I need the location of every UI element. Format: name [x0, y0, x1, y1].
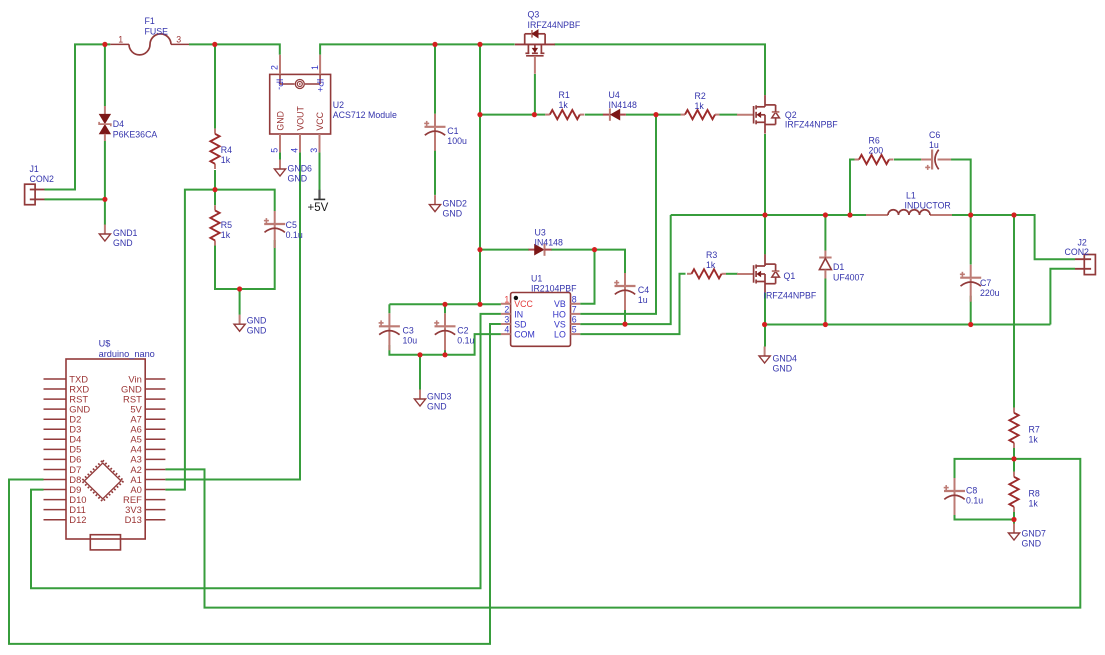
svg-text:GND: GND	[247, 326, 267, 336]
junction output rail / D1	[823, 212, 828, 217]
wire U4 to HO node	[626, 114, 656, 116]
wire GND node down to GND1	[104, 199, 106, 225]
ground GND4	[759, 347, 797, 374]
wire rail to C7 top	[970, 215, 972, 265]
wire rail to GND3	[419, 355, 421, 390]
svg-text:IRFZ44NPBF: IRFZ44NPBF	[764, 291, 817, 301]
junction top rail / D4	[102, 42, 107, 47]
diode U3	[529, 228, 563, 256]
svg-text:D4: D4	[113, 119, 124, 129]
wire Q3 gate down to R1 row	[534, 74, 536, 115]
svg-text:GND: GND	[113, 238, 133, 248]
wire VCC rail down to C3 top	[388, 304, 390, 313]
ground GND6	[274, 160, 312, 184]
wire R2 to Q2 gate	[720, 114, 738, 116]
wire VB node to C4 top	[595, 250, 626, 274]
transistor Q2	[737, 95, 838, 134]
connector J2	[1065, 238, 1096, 275]
ground GND3	[414, 390, 451, 412]
capacitor C1	[424, 114, 467, 151]
svg-text:1: 1	[504, 294, 509, 304]
svg-text:GND: GND	[247, 316, 267, 326]
wire feedback node to C8 top	[955, 459, 1015, 478]
junction gnd rail / Q1 source / GND4	[762, 322, 767, 327]
svg-text:R7: R7	[1029, 425, 1040, 435]
wire C6 to rail	[951, 160, 971, 216]
wire main vertical (rail to U1 VCC)	[479, 44, 481, 304]
svg-text:1k: 1k	[1029, 499, 1039, 509]
svg-text:5: 5	[270, 148, 280, 153]
svg-text:U1: U1	[531, 274, 542, 284]
svg-text:1k: 1k	[1029, 435, 1039, 445]
svg-text:GND: GND	[276, 111, 286, 131]
svg-text:6: 6	[572, 315, 577, 325]
svg-text:200: 200	[869, 146, 884, 156]
svg-text:VS: VS	[554, 319, 566, 329]
junction gnd rail / C2	[442, 352, 447, 357]
wire top rail to D4 top	[104, 44, 106, 106]
svg-text:D1: D1	[833, 262, 844, 272]
svg-text:3: 3	[504, 315, 509, 325]
svg-text:GND: GND	[773, 364, 793, 374]
junction gnd rail / GND3	[417, 352, 422, 357]
ground (R5/C5)	[234, 315, 266, 336]
junction gnd rail / C7	[968, 322, 973, 327]
wire to U3 anode	[480, 249, 529, 251]
svg-text:GND7: GND7	[1022, 529, 1047, 539]
wire top rail (Q3 source to Q2 drain)	[554, 44, 765, 95]
svg-text:4: 4	[290, 148, 300, 153]
wire D1 anode to return rail	[824, 279, 826, 325]
svg-text:R1: R1	[559, 90, 570, 100]
wire U2 VOUT down to arduino A1	[165, 152, 300, 479]
wire VCC rail to U1 pin1	[389, 303, 501, 305]
diode D1	[819, 251, 864, 283]
wire top rail (U2 IP+ to Q3 drain)	[320, 44, 515, 54]
svg-text:220u: 220u	[980, 288, 1000, 298]
wire divider node to C5 top	[215, 190, 275, 211]
svg-text:D13: D13	[125, 514, 142, 525]
wire Q1 source down thru VS rail to GND4	[764, 293, 766, 347]
svg-text:UF4007: UF4007	[833, 273, 864, 283]
svg-text:D12: D12	[69, 514, 86, 525]
svg-text:IN: IN	[514, 309, 523, 319]
capacitor C8	[944, 478, 984, 515]
wire VCC rail down to C2 top	[444, 304, 446, 313]
wire output ground rail	[765, 324, 1051, 326]
fuse F1	[110, 16, 189, 55]
wire D4 bottom to GND node	[104, 141, 106, 199]
wire R3 to Q1 gate	[726, 273, 738, 275]
svg-text:R6: R6	[869, 136, 880, 146]
svg-text:CON2: CON2	[30, 174, 55, 184]
junction gate row	[477, 112, 482, 117]
svg-text:COM: COM	[514, 330, 535, 340]
wire R6 to C6	[894, 159, 921, 161]
svg-text:IP-: IP-	[275, 79, 285, 90]
svg-text:FUSE: FUSE	[145, 27, 169, 37]
svg-text:C8: C8	[966, 486, 977, 496]
wire C4 bottom to VS row	[624, 303, 626, 325]
svg-text:R4: R4	[221, 145, 232, 155]
svg-text:VCC: VCC	[315, 111, 325, 130]
svg-text:ACS712 Module: ACS712 Module	[333, 110, 397, 120]
svg-text:LO: LO	[554, 330, 566, 340]
junction Q3 gate	[532, 112, 537, 117]
svg-text:C4: C4	[638, 285, 649, 295]
wire U1 IN pin long route to arduino D9	[31, 314, 501, 588]
wire R1 to U4	[585, 114, 603, 116]
svg-text:Q2: Q2	[785, 110, 797, 120]
capacitor C6	[921, 130, 951, 170]
wire U2 GND pin to GND6	[279, 152, 281, 159]
svg-text:0.1u: 0.1u	[286, 230, 303, 240]
inductor L1	[866, 191, 952, 216]
junction VS row / C4	[622, 322, 627, 327]
svg-text:GND6: GND6	[288, 164, 313, 174]
wire return rail up to J2 pin2	[1050, 269, 1075, 325]
svg-text:U$: U$	[99, 338, 111, 348]
diode U4	[603, 90, 637, 121]
svg-text:1k: 1k	[559, 100, 569, 110]
svg-text:GND3: GND3	[427, 392, 452, 402]
ground GND2	[429, 195, 467, 218]
svg-text:4: 4	[504, 325, 509, 335]
svg-text:2: 2	[270, 65, 280, 70]
resistor R2	[681, 91, 720, 119]
wire top rail (fuse to U2 IP-)	[189, 44, 280, 54]
wire rail down to R7	[1013, 215, 1015, 408]
junction output rail / Q2 source / Q1 drain	[762, 212, 767, 217]
wire C3 bottom rail to U1 COM pin	[389, 334, 501, 355]
svg-text:1u: 1u	[638, 295, 648, 305]
wire HO node down to U1 HO pin	[580, 115, 656, 314]
svg-text:0.1u: 0.1u	[966, 496, 983, 506]
svg-text:GND1: GND1	[113, 228, 138, 238]
wire R7 to feedback node	[1013, 448, 1015, 459]
+5V supply symbol	[308, 190, 329, 214]
wire output rail (L1 to J2 pin1)	[952, 215, 1075, 259]
svg-text:GND4: GND4	[773, 354, 798, 364]
wire C2 bottom to rail	[444, 345, 446, 355]
junction divider node	[212, 187, 217, 192]
svg-text:L1: L1	[906, 191, 916, 201]
wire top rail to R4 top	[214, 44, 216, 128]
svg-text:IRFZ44NPBF: IRFZ44NPBF	[785, 120, 838, 130]
svg-text:GND: GND	[443, 209, 463, 219]
svg-text:1k: 1k	[695, 101, 705, 111]
wire gate node row Q3	[480, 114, 535, 116]
junction VCC rail	[477, 302, 482, 307]
svg-text:3: 3	[176, 35, 181, 45]
svg-text:INDUCTOR: INDUCTOR	[905, 201, 951, 211]
junction HO node	[653, 112, 658, 117]
svg-text:CON2: CON2	[1065, 247, 1090, 257]
wire R4 bottom to divider node	[214, 170, 216, 190]
svg-text:C5: C5	[286, 220, 297, 230]
IC U1 IR2104PBF	[501, 274, 580, 347]
wire output rail (VS riser to L1)	[671, 214, 866, 216]
svg-text:IRFZ44NPBF: IRFZ44NPBF	[528, 20, 581, 30]
capacitor C4	[614, 273, 649, 310]
svg-text:SD: SD	[514, 319, 526, 329]
wire U2 VCC pin to +5V	[319, 152, 321, 190]
svg-text:1: 1	[118, 35, 123, 45]
svg-text:7: 7	[572, 304, 577, 314]
resistor R6	[855, 136, 894, 165]
svg-text:IR2104PBF: IR2104PBF	[531, 284, 577, 294]
resistor R3	[687, 250, 726, 278]
wire VB node down to U1 VB pin	[580, 250, 594, 304]
wire U3 cathode to VB node	[551, 249, 595, 251]
svg-text:Q1: Q1	[784, 271, 796, 281]
wire feedback node to R8	[1013, 459, 1015, 472]
wire divider node to R5 top	[214, 190, 216, 206]
svg-text:C3: C3	[403, 326, 414, 336]
ground GND1	[99, 225, 137, 249]
connector J1	[25, 164, 54, 205]
wire rail to D1 cathode	[824, 215, 826, 251]
svg-text:+5V: +5V	[308, 202, 329, 214]
wire top rail to C1 top	[434, 44, 436, 113]
capacitor C3	[379, 313, 418, 350]
svg-text:R2: R2	[695, 91, 706, 101]
capacitor C7	[960, 265, 1000, 302]
junction J1 pin2 / D4 / GND1	[102, 197, 107, 202]
junction output rail / R7	[1011, 212, 1016, 217]
wire U1 LO pin to R3	[580, 274, 685, 334]
TVS diode D4	[99, 106, 157, 141]
svg-text:U3: U3	[535, 228, 546, 238]
wire C7 bottom to return rail	[970, 296, 972, 325]
junction R5-C5 rail / GND	[237, 286, 242, 291]
resistor R7	[1009, 408, 1039, 448]
svg-text:1: 1	[310, 65, 320, 70]
IC U2 ACS712 module	[270, 55, 397, 153]
wire Q2 source down to output rail	[764, 134, 766, 215]
resistor R5	[210, 205, 232, 245]
wire output rail down to Q1 drain	[764, 215, 766, 254]
wire J1 pin2 to GND node	[45, 198, 105, 200]
svg-text:GND: GND	[288, 174, 308, 184]
wire bottom rail to GND	[239, 289, 241, 315]
svg-text:C6: C6	[929, 130, 940, 140]
svg-text:U4: U4	[609, 90, 620, 100]
junction feedback node	[1011, 456, 1016, 461]
wire C1 bottom to GND2	[434, 145, 436, 195]
svg-text:R3: R3	[706, 250, 717, 260]
transistor Q1	[737, 254, 817, 300]
svg-text:VB: VB	[554, 299, 566, 309]
junction top rail / C1	[432, 42, 437, 47]
svg-text:F1: F1	[145, 16, 155, 26]
svg-text:J2: J2	[1078, 238, 1087, 248]
wire feedback node long route to arduino A2	[165, 459, 1080, 608]
svg-text:VCC: VCC	[514, 299, 533, 309]
svg-text:P6KE36CA: P6KE36CA	[113, 129, 158, 139]
svg-text:C7: C7	[980, 278, 991, 288]
svg-text:1k: 1k	[221, 155, 231, 165]
svg-text:U2: U2	[333, 100, 344, 110]
svg-text:GND: GND	[1022, 539, 1042, 549]
svg-text:8: 8	[572, 294, 577, 304]
junction gnd rail / D1 anode	[823, 322, 828, 327]
svg-text:100u: 100u	[447, 136, 467, 146]
svg-text:IN4148: IN4148	[535, 238, 563, 248]
svg-text:1k: 1k	[706, 260, 716, 270]
wire rail up to R6	[850, 160, 855, 216]
svg-text:J1: J1	[30, 164, 39, 174]
junction top rail / main vertical	[477, 42, 482, 47]
svg-text:GND2: GND2	[443, 199, 468, 209]
svg-text:5: 5	[572, 325, 577, 335]
resistor R4	[210, 129, 232, 169]
svg-text:1u: 1u	[929, 140, 939, 150]
IC U$ arduino_nano	[44, 338, 166, 550]
svg-text:3: 3	[309, 148, 319, 153]
svg-text:GND: GND	[427, 402, 447, 412]
wire R5/C5 bottom rail	[215, 240, 275, 289]
svg-text:IP+: IP+	[315, 79, 325, 92]
svg-text:Q3: Q3	[528, 10, 540, 20]
transistor Q3	[515, 30, 555, 74]
svg-text:arduino_nano: arduino_nano	[99, 349, 155, 359]
svg-text:10u: 10u	[403, 336, 418, 346]
capacitor C2	[434, 313, 474, 350]
junction output rail / C6 / C7	[968, 212, 973, 217]
wire U1 SD pin long route to arduino D8	[9, 324, 501, 644]
svg-text:0.1u: 0.1u	[457, 336, 474, 346]
wire J1 pin1 up to rail	[45, 44, 111, 189]
resistor R1	[545, 90, 584, 119]
capacitor C5	[264, 211, 303, 248]
svg-text:2: 2	[504, 304, 509, 314]
ground GND7	[1008, 524, 1046, 549]
junction U3 anode	[477, 247, 482, 252]
svg-text:VOUT: VOUT	[296, 106, 306, 131]
wire HO node to R2	[656, 114, 681, 116]
svg-text:C1: C1	[447, 126, 458, 136]
wire GND7 node down	[1013, 520, 1015, 524]
svg-text:R5: R5	[221, 220, 232, 230]
wire R8 bottom	[1013, 512, 1015, 520]
wire to R1	[535, 114, 545, 116]
junction output rail / R6	[847, 212, 852, 217]
resistor R8	[1009, 472, 1039, 512]
wire divider node to arduino A0	[165, 190, 215, 490]
junction U3 cathode / VB	[592, 247, 597, 252]
wire U1 VS pin along VS row up to output rail	[580, 215, 671, 324]
svg-text:1k: 1k	[221, 230, 231, 240]
junction VCC rail / C2	[442, 302, 447, 307]
svg-text:R8: R8	[1029, 489, 1040, 499]
wire C8 bottom to GND7 node	[955, 509, 1015, 520]
junction top rail / R4	[212, 42, 217, 47]
junction R8 / C8 / GND7	[1011, 517, 1016, 522]
svg-text:C2: C2	[457, 326, 468, 336]
svg-text:IN4148: IN4148	[609, 100, 637, 110]
svg-text:HO: HO	[553, 309, 566, 319]
